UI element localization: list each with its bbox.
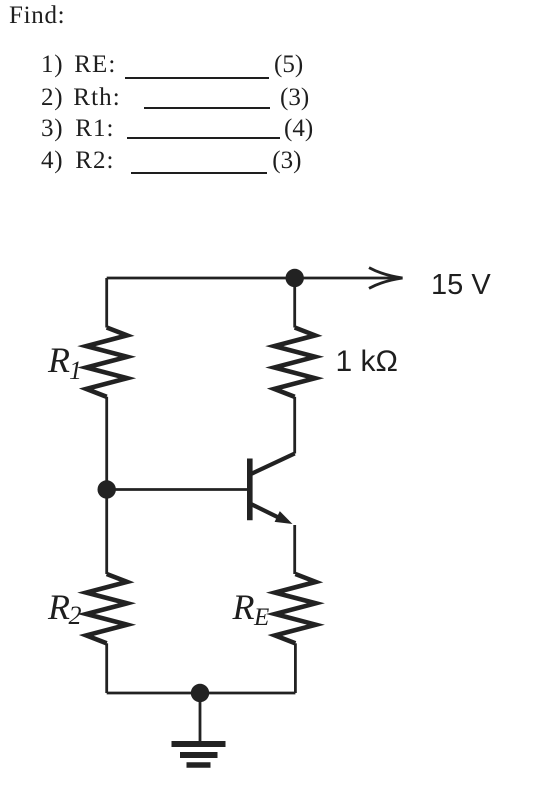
- wire: base wire from divider to transistor: [107, 488, 247, 491]
- node: ground junction dot: [191, 684, 209, 702]
- list line 3: R1: [41, 116, 63, 141]
- list line 4: R2: [41, 148, 63, 173]
- resistor label R1: [48, 342, 70, 378]
- resistor RE: [275, 574, 316, 643]
- supply arrowhead (15 V): [369, 268, 403, 289]
- resistor R1: [86, 328, 127, 397]
- wire: collector wire from 1k resistor down to transistor: [293, 397, 296, 454]
- wire: right branch, RE to bottom rail: [294, 643, 297, 693]
- value label 1 kOhm: [336, 347, 398, 377]
- wire: emitter wire from transistor to RE: [293, 525, 296, 574]
- resistor R2: [86, 574, 127, 643]
- wire: bottom rail: [107, 692, 296, 695]
- resistor RC 1 kOhm: [274, 328, 315, 397]
- node: VCC junction dot: [286, 269, 304, 287]
- transistor Q1 (NPN): [250, 454, 295, 525]
- wire: left branch, top rail to R1: [105, 278, 108, 328]
- wire: top rail from left branch to supply arrow: [107, 277, 400, 280]
- resistor label RE: [233, 589, 255, 625]
- title "Find:": [9, 3, 65, 28]
- wire: right branch, top rail to 1k resistor: [293, 278, 296, 328]
- resistor label R2: [48, 589, 70, 625]
- net label 15 V: [431, 271, 491, 300]
- wire: left branch, R2 to bottom rail: [105, 643, 108, 693]
- wire: left branch, R1 to R2: [105, 397, 108, 574]
- list line 1: RE: [41, 52, 63, 77]
- node: base divider junction dot: [98, 480, 116, 498]
- ground: [172, 693, 226, 765]
- list line 2: Rth: [41, 85, 63, 110]
